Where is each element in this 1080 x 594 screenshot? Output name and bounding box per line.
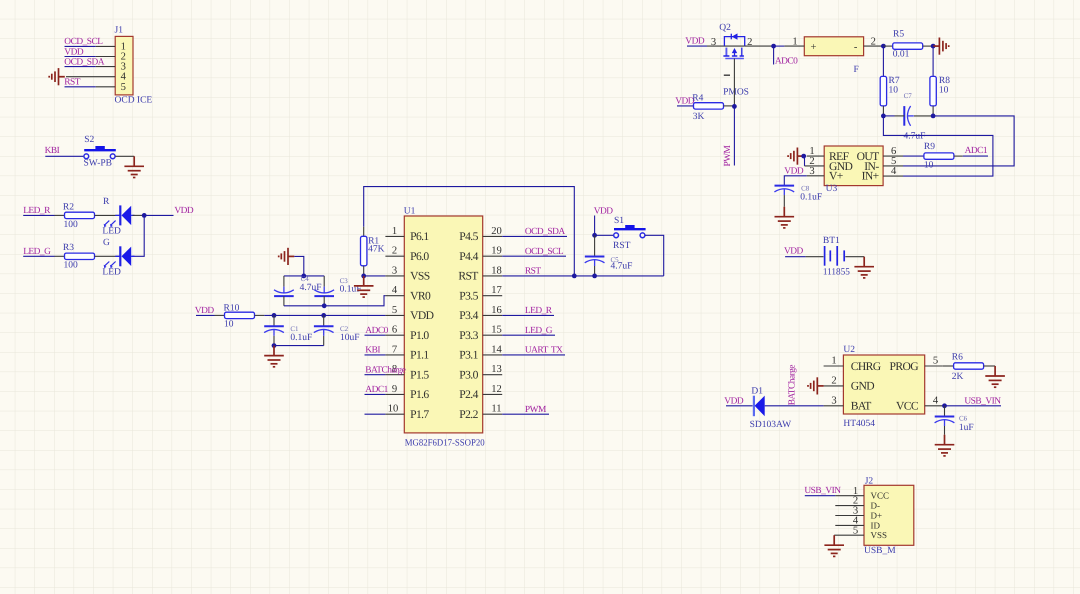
junction VDD C5 S1 bbox=[592, 233, 597, 238]
wire R7 bottom to IN+ bbox=[883, 116, 993, 176]
svg-text:SD103AW: SD103AW bbox=[750, 420, 791, 430]
svg-text:P1.0: P1.0 bbox=[410, 329, 429, 342]
junction C3 bottom bbox=[322, 303, 327, 308]
svg-text:USB_VIN: USB_VIN bbox=[804, 486, 841, 496]
pin U1.1 bbox=[385, 226, 404, 237]
wire OCD_SDA U1 bbox=[502, 227, 567, 237]
svg-text:HT4054: HT4054 bbox=[843, 419, 875, 429]
wire UART TX U1 bbox=[502, 346, 565, 356]
wire ground to C4 C3 rail bbox=[294, 256, 304, 276]
pin R6 right bbox=[984, 365, 996, 367]
svg-text:LED_G: LED_G bbox=[23, 247, 51, 257]
pin C4 bottom lead bbox=[283, 296, 285, 306]
junction VCC C6 bbox=[942, 403, 947, 408]
svg-text:D+: D+ bbox=[871, 511, 883, 521]
pin C5 bottom lead bbox=[594, 266, 596, 276]
svg-text:J2: J2 bbox=[865, 477, 874, 487]
svg-text:R9: R9 bbox=[924, 142, 935, 152]
pin U2.1 bbox=[824, 356, 844, 367]
svg-text:LED_R: LED_R bbox=[525, 306, 553, 316]
pin C4 top lead bbox=[283, 276, 285, 287]
wire R8 top bbox=[932, 46, 934, 76]
diode D1 bbox=[754, 396, 765, 417]
pin C2 bottom lead bbox=[323, 336, 325, 346]
resistor R9 bbox=[924, 153, 954, 159]
wire C7 right to IN- bbox=[903, 116, 1014, 166]
svg-text:UARTTX: UARTTX bbox=[525, 346, 563, 356]
svg-text:R4: R4 bbox=[692, 94, 703, 104]
junction REF GND tie bbox=[801, 154, 806, 159]
pin R10 right bbox=[255, 314, 265, 316]
svg-text:10: 10 bbox=[924, 161, 934, 171]
ground C1 C2 bbox=[264, 346, 284, 367]
pin J1.2 bbox=[96, 56, 116, 58]
svg-text:PWM: PWM bbox=[723, 144, 733, 166]
svg-text:LED: LED bbox=[102, 227, 121, 237]
svg-text:Q2: Q2 bbox=[719, 23, 731, 33]
pin R1 top bbox=[363, 227, 365, 237]
svg-text:R5: R5 bbox=[893, 30, 904, 40]
junction ADC0 node bbox=[771, 44, 776, 49]
wire REF to GND bbox=[804, 156, 806, 166]
wire OCD_SDA bbox=[65, 66, 96, 68]
svg-text:PWM: PWM bbox=[525, 405, 547, 415]
ground right of R5 bbox=[933, 38, 949, 55]
svg-text:P3.0: P3.0 bbox=[459, 369, 478, 382]
svg-text:C7: C7 bbox=[904, 92, 913, 100]
ground left of C4 bbox=[279, 248, 295, 265]
wire ADC1 bbox=[963, 155, 988, 157]
svg-text:2: 2 bbox=[871, 37, 876, 48]
svg-text:CHRG: CHRG bbox=[851, 360, 882, 373]
svg-text:-: - bbox=[854, 42, 858, 53]
pin U1.16 bbox=[483, 305, 503, 316]
svg-text:USB_M: USB_M bbox=[864, 546, 896, 556]
wire VDD to R4 bbox=[677, 105, 694, 107]
svg-text:5: 5 bbox=[853, 525, 858, 536]
svg-text:3: 3 bbox=[711, 37, 716, 48]
pin U2.3 bbox=[824, 396, 844, 407]
wire ADC0 stub bbox=[773, 46, 775, 64]
junction R5 R8 bbox=[931, 44, 936, 49]
svg-text:4: 4 bbox=[933, 396, 939, 407]
pin J1.4 bbox=[66, 76, 115, 78]
svg-text:10: 10 bbox=[224, 320, 234, 330]
resistor R4 bbox=[694, 103, 724, 109]
switch S2 bbox=[84, 146, 116, 159]
pin U3.6 bbox=[883, 146, 903, 157]
pin C8 bottom lead bbox=[783, 195, 785, 207]
svg-text:P1.5: P1.5 bbox=[410, 369, 429, 382]
svg-text:0.1uF: 0.1uF bbox=[290, 333, 312, 343]
svg-text:S1: S1 bbox=[614, 216, 624, 226]
svg-text:2: 2 bbox=[392, 246, 397, 257]
pin BT1 right bbox=[845, 256, 864, 258]
svg-text:R7: R7 bbox=[889, 76, 900, 86]
svg-text:RST: RST bbox=[613, 241, 631, 251]
ground R6 bbox=[985, 366, 1005, 387]
svg-text:OCD_SDA: OCD_SDA bbox=[525, 227, 565, 237]
svg-text:P6.0: P6.0 bbox=[410, 250, 429, 263]
junction R1 VSS bbox=[361, 274, 366, 279]
svg-text:4.7uF: 4.7uF bbox=[611, 261, 633, 271]
ground S2 bbox=[124, 156, 144, 177]
junction C5 RST rail bbox=[592, 274, 597, 279]
pin R8 bottom bbox=[932, 106, 934, 116]
pin U2.4 bbox=[925, 396, 943, 407]
svg-text:OCD_SCL: OCD_SCL bbox=[525, 247, 564, 257]
wire LED_R U1 bbox=[502, 306, 554, 316]
pin U1.6 bbox=[385, 325, 404, 336]
ground J2 VSS bbox=[824, 535, 844, 556]
pin U1.4 bbox=[385, 285, 404, 296]
pin U1.7 bbox=[385, 344, 404, 355]
svg-text:D1: D1 bbox=[751, 386, 763, 396]
svg-text:U3: U3 bbox=[826, 184, 838, 194]
pin LED R right bbox=[133, 214, 145, 216]
ground U2 GND bbox=[808, 377, 824, 394]
svg-text:ADC0: ADC0 bbox=[365, 326, 388, 336]
svg-text:5: 5 bbox=[121, 82, 126, 93]
wire OCD_SCL bbox=[65, 45, 96, 47]
resistor R5 bbox=[893, 43, 923, 49]
junction LED R VDD bbox=[142, 213, 147, 218]
pin U1.15 bbox=[483, 325, 503, 336]
wire C1 C2 bottom bbox=[274, 345, 324, 347]
resistor R2 bbox=[65, 212, 95, 218]
pin J2.5 bbox=[834, 525, 864, 536]
svg-text:R8: R8 bbox=[939, 76, 950, 86]
svg-text:OCD_SCL: OCD_SCL bbox=[64, 37, 103, 47]
pin C1 top lead bbox=[273, 315, 275, 326]
svg-text:1: 1 bbox=[831, 356, 836, 367]
op-amp U3 bbox=[824, 146, 883, 186]
svg-text:R6: R6 bbox=[952, 353, 963, 363]
svg-text:P3.1: P3.1 bbox=[459, 349, 478, 362]
svg-text:16: 16 bbox=[491, 305, 502, 316]
pin R3 right to LED G bbox=[95, 255, 120, 257]
svg-text:F: F bbox=[854, 65, 859, 75]
wire RST J1 bbox=[65, 86, 96, 88]
pin R2 right to LED R bbox=[95, 214, 120, 216]
svg-text:111855: 111855 bbox=[823, 267, 850, 277]
pin C6 bottom lead bbox=[944, 426, 946, 435]
wire VDD to BT1 bbox=[785, 256, 806, 258]
pin U3.2 bbox=[805, 156, 825, 167]
pin J2.1 bbox=[835, 486, 864, 497]
wire OUT to R9 bbox=[903, 155, 924, 157]
pin R10 left bbox=[215, 314, 225, 316]
battery BT1 bbox=[825, 246, 845, 266]
pin J2.4 bbox=[835, 516, 864, 527]
pin U1.3 bbox=[385, 265, 404, 276]
svg-text:PROG: PROG bbox=[889, 360, 919, 373]
wire R7 top bbox=[882, 46, 884, 76]
svg-text:P3.5: P3.5 bbox=[459, 290, 478, 303]
svg-text:2K: 2K bbox=[952, 372, 964, 382]
svg-text:P1.1: P1.1 bbox=[410, 349, 429, 362]
wire ADC1 U1 bbox=[365, 385, 389, 395]
wire to VDD bbox=[144, 214, 173, 216]
capacitor C7 bbox=[904, 106, 914, 126]
wire LED_G U1 bbox=[502, 326, 555, 336]
charger U2 bbox=[843, 355, 924, 414]
pin U3.5 bbox=[883, 156, 903, 167]
pin R3 left bbox=[55, 255, 65, 257]
svg-text:ID: ID bbox=[871, 520, 881, 530]
svg-text:BATCharge: BATCharge bbox=[788, 365, 798, 405]
pin C7 right lead bbox=[914, 115, 933, 117]
wire VDD to R10 bbox=[196, 314, 215, 316]
capacitor C4 bbox=[274, 287, 294, 297]
svg-text:P3.3: P3.3 bbox=[459, 329, 478, 342]
pin Q2 gate lead bbox=[733, 59, 735, 107]
svg-text:LED_G: LED_G bbox=[525, 326, 553, 336]
wire S1 right contact down to RST rail bbox=[645, 235, 664, 276]
svg-text:P2.4: P2.4 bbox=[459, 388, 478, 401]
pin C5 top lead bbox=[594, 235, 596, 256]
ground C6 bbox=[935, 435, 955, 456]
svg-text:KBI: KBI bbox=[365, 346, 380, 356]
svg-text:VDD: VDD bbox=[784, 246, 804, 256]
wire KBI U1 bbox=[365, 346, 386, 356]
pin U1.18 bbox=[483, 265, 503, 276]
svg-text:3K: 3K bbox=[693, 112, 705, 122]
svg-text:VDD: VDD bbox=[594, 207, 614, 217]
capacitor C8 bbox=[774, 186, 794, 196]
svg-text:ADC1: ADC1 bbox=[365, 385, 388, 395]
pin U1.13 bbox=[483, 364, 503, 375]
svg-text:9: 9 bbox=[392, 384, 397, 395]
svg-text:P4.5: P4.5 bbox=[459, 230, 478, 243]
svg-text:P4.4: P4.4 bbox=[459, 250, 478, 263]
svg-text:BATCharge: BATCharge bbox=[365, 365, 405, 375]
wire VDD rail to U1 pin5 bbox=[264, 314, 385, 316]
pin U1.2 bbox=[385, 246, 404, 257]
resistor R7 bbox=[880, 76, 886, 106]
svg-text:BAT: BAT bbox=[851, 400, 872, 413]
svg-text:P3.4: P3.4 bbox=[459, 309, 478, 322]
svg-text:18: 18 bbox=[491, 265, 502, 276]
svg-text:GND: GND bbox=[851, 380, 875, 393]
svg-text:OCD ICE: OCD ICE bbox=[115, 95, 153, 105]
ground C8 bbox=[775, 207, 795, 228]
pin U1.19 bbox=[483, 246, 503, 257]
junction C4 C3 rail bbox=[301, 274, 306, 279]
junction C1 bottom bbox=[272, 343, 277, 348]
pin R4 right bbox=[724, 105, 735, 107]
junction C2 top bbox=[321, 313, 326, 318]
junction C1 top bbox=[272, 313, 277, 318]
wire LED R to LED G bbox=[133, 215, 145, 256]
resistor R8 bbox=[930, 76, 936, 106]
svg-text:2: 2 bbox=[747, 37, 752, 48]
svg-text:RST: RST bbox=[64, 78, 80, 88]
wire VSS to R1 bbox=[364, 275, 386, 277]
wire VDD to Q2 source bbox=[687, 45, 707, 47]
ground BT1 bbox=[854, 257, 874, 278]
svg-text:1: 1 bbox=[392, 226, 397, 237]
svg-text:VDD: VDD bbox=[64, 47, 84, 57]
svg-text:R10: R10 bbox=[224, 303, 240, 313]
svg-text:10: 10 bbox=[939, 85, 949, 95]
connector J1 bbox=[115, 36, 133, 95]
pin U3.3 bbox=[807, 166, 825, 177]
svg-text:1: 1 bbox=[792, 37, 797, 48]
wire top rail R1 to RST bbox=[364, 187, 575, 276]
resistor R3 bbox=[65, 253, 95, 259]
pin J1.3 bbox=[96, 66, 116, 68]
pin U3.1 bbox=[807, 146, 825, 157]
pin J2.3 bbox=[835, 506, 864, 517]
resistor R6 bbox=[954, 363, 984, 369]
ground U3 REF bbox=[788, 148, 804, 165]
svg-text:U2: U2 bbox=[843, 345, 855, 355]
ground VSS bbox=[354, 276, 374, 297]
pin BT1 left bbox=[806, 256, 824, 258]
wire C4 C3 bottom to VR0 bbox=[284, 296, 386, 306]
svg-text:C4: C4 bbox=[301, 275, 310, 283]
svg-text:P6.1: P6.1 bbox=[410, 230, 429, 243]
svg-text:20: 20 bbox=[491, 226, 502, 237]
svg-text:VSS: VSS bbox=[871, 530, 888, 540]
pin R5 left bbox=[883, 45, 892, 47]
svg-text:SW-PB: SW-PB bbox=[84, 159, 113, 169]
svg-text:VDD: VDD bbox=[724, 396, 744, 406]
svg-text:10: 10 bbox=[388, 404, 399, 415]
pin C6 top lead bbox=[944, 406, 946, 417]
junction F R5 R7 bbox=[881, 44, 886, 49]
wire VDD stub S1 bbox=[594, 216, 596, 236]
wire PWM U1 bbox=[502, 405, 549, 415]
wire R7 bottom to C7 bbox=[883, 115, 894, 117]
svg-text:0.01: 0.01 bbox=[893, 50, 910, 60]
capacitor C5 bbox=[585, 257, 605, 267]
MCU U1 bbox=[404, 216, 482, 433]
capacitor C2 bbox=[314, 326, 334, 336]
svg-text:4.7uF: 4.7uF bbox=[904, 131, 926, 141]
pin C2 top lead bbox=[323, 315, 325, 326]
svg-text:3: 3 bbox=[392, 265, 397, 276]
pin J2.2 bbox=[835, 496, 864, 507]
svg-text:S2: S2 bbox=[84, 135, 94, 145]
svg-text:MG82F6D17-SSOP20: MG82F6D17-SSOP20 bbox=[405, 439, 485, 449]
transistor Q2 PMOS bbox=[723, 33, 744, 58]
pin U1.8 bbox=[385, 364, 404, 375]
capacitor C3 bbox=[314, 287, 334, 297]
svg-text:0.1uF: 0.1uF bbox=[800, 193, 822, 203]
wire BAT to D1 bbox=[765, 405, 824, 407]
pin J1.5 bbox=[96, 86, 116, 88]
pin Q2.2 bbox=[745, 37, 774, 48]
pin C3 top lead bbox=[323, 276, 325, 287]
svg-text:LED_R: LED_R bbox=[23, 206, 51, 216]
svg-text:1uF: 1uF bbox=[959, 423, 974, 433]
connector J2 bbox=[864, 485, 914, 545]
wire to S1 left contact bbox=[595, 234, 614, 236]
svg-text:3: 3 bbox=[831, 396, 836, 407]
ground J1 pin4 bbox=[49, 68, 65, 85]
svg-text:G: G bbox=[103, 238, 110, 248]
wire S2 to ground bbox=[116, 155, 135, 157]
switch S1 bbox=[614, 225, 646, 238]
junction R7 C7 bbox=[881, 114, 886, 119]
pin R9 right bbox=[954, 155, 963, 157]
wire C4 C3 top rail bbox=[284, 275, 324, 277]
svg-text:ADC0: ADC0 bbox=[775, 57, 798, 67]
pin U1.17 bbox=[483, 285, 503, 296]
svg-text:VR0: VR0 bbox=[410, 290, 431, 303]
svg-text:RST: RST bbox=[525, 267, 541, 277]
svg-text:19: 19 bbox=[491, 246, 502, 257]
pin R1 bottom bbox=[363, 266, 365, 276]
pin U3.4 bbox=[883, 166, 903, 177]
svg-text:C8: C8 bbox=[801, 185, 810, 193]
pin F.2 bbox=[864, 37, 884, 48]
wire VCC to USB_VIN bbox=[943, 405, 1001, 407]
svg-text:5: 5 bbox=[933, 356, 938, 367]
svg-text:RST: RST bbox=[458, 270, 478, 283]
junction RST rail bbox=[572, 274, 577, 279]
svg-text:R3: R3 bbox=[63, 243, 74, 253]
pin R5 right bbox=[923, 45, 933, 47]
svg-text:PMOS: PMOS bbox=[723, 88, 749, 98]
pin U1.5 bbox=[385, 305, 404, 316]
gate dash mark bbox=[724, 74, 730, 76]
svg-text:LED: LED bbox=[102, 268, 121, 278]
capacitor C6 bbox=[935, 417, 955, 427]
svg-text:OCD_SDA: OCD_SDA bbox=[64, 57, 104, 67]
pin Q2.3 bbox=[707, 37, 745, 48]
junction R8 C7 bbox=[931, 114, 936, 119]
LED G bbox=[104, 246, 135, 268]
svg-text:10: 10 bbox=[889, 85, 899, 95]
svg-text:VDD: VDD bbox=[195, 306, 215, 316]
svg-text:VDD: VDD bbox=[174, 206, 194, 216]
svg-text:VDD: VDD bbox=[784, 166, 804, 176]
wire PWM down bbox=[733, 106, 735, 165]
svg-text:100: 100 bbox=[64, 261, 79, 271]
svg-text:V+: V+ bbox=[829, 170, 843, 183]
svg-text:P2.2: P2.2 bbox=[459, 408, 478, 421]
svg-text:17: 17 bbox=[491, 285, 502, 296]
svg-text:10uF: 10uF bbox=[340, 333, 360, 343]
svg-text:47K: 47K bbox=[368, 245, 385, 255]
svg-text:3: 3 bbox=[809, 166, 814, 177]
svg-text:6: 6 bbox=[392, 325, 397, 336]
svg-text:VSS: VSS bbox=[410, 270, 430, 283]
resistor R1 bbox=[361, 236, 367, 265]
pin J1.1 bbox=[96, 45, 116, 47]
svg-text:C2: C2 bbox=[340, 325, 349, 333]
wire U1 pin10 bbox=[365, 413, 386, 415]
svg-text:VDD: VDD bbox=[685, 37, 705, 47]
capacitor C1 bbox=[264, 326, 284, 336]
svg-text:D-: D- bbox=[871, 501, 881, 511]
pin U2.5 bbox=[925, 356, 943, 367]
svg-text:5: 5 bbox=[392, 305, 397, 316]
svg-text:VCC: VCC bbox=[871, 491, 890, 501]
pin F.1 bbox=[784, 37, 804, 48]
wire KBI bbox=[45, 155, 83, 157]
wire BATCharge U1 bbox=[365, 365, 406, 375]
svg-text:P1.6: P1.6 bbox=[410, 388, 429, 401]
svg-text:C1: C1 bbox=[290, 325, 299, 333]
svg-text:11: 11 bbox=[491, 404, 501, 415]
svg-text:4: 4 bbox=[392, 285, 398, 296]
svg-text:7: 7 bbox=[392, 344, 397, 355]
pin PROG to R6 bbox=[943, 365, 954, 367]
